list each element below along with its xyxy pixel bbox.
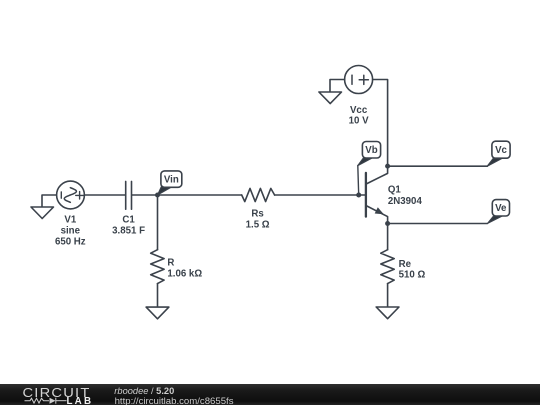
transistor Q1 2N3904 xyxy=(359,166,388,223)
svg-text:sine: sine xyxy=(61,226,81,237)
value label Re 510 Ohm xyxy=(399,259,426,281)
logo resistor-diode glyph xyxy=(25,398,67,404)
value label Rs 1.5 Ohm xyxy=(246,208,270,230)
svg-text:Vb: Vb xyxy=(365,145,377,156)
wire C1 to node Vin xyxy=(132,194,158,196)
svg-text:Vin: Vin xyxy=(164,175,179,186)
svg-text:C1: C1 xyxy=(122,215,135,226)
junction node Vin xyxy=(155,193,160,198)
wire emitter to Ve flag xyxy=(388,223,488,225)
svg-text:3.851 F: 3.851 F xyxy=(112,226,145,237)
resistor R xyxy=(151,250,164,284)
svg-text:1.5 Ω: 1.5 Ω xyxy=(246,219,270,230)
svg-text:Q1: Q1 xyxy=(388,185,402,196)
ground G3 (Vcc) xyxy=(319,92,342,104)
svg-text:Rs: Rs xyxy=(251,208,263,219)
wire node Vin to Rs xyxy=(158,194,242,196)
value label Vcc 10 V xyxy=(349,105,369,127)
emitter arrow xyxy=(375,207,384,214)
svg-text:LAB: LAB xyxy=(67,396,94,405)
svg-text:V1: V1 xyxy=(64,215,76,226)
svg-text:http://circuitlab.com/c8655fs: http://circuitlab.com/c8655fs xyxy=(115,396,234,405)
wire Rs to base node xyxy=(275,194,359,196)
ground G4 (below Re) xyxy=(376,307,399,319)
junction node Ve (emitter) xyxy=(385,221,390,226)
base lead xyxy=(359,194,366,196)
svg-text:rboodee / 5.20: rboodee / 5.20 xyxy=(114,386,174,396)
value label V1 sine 650 Hz xyxy=(55,215,86,248)
resistor Re xyxy=(381,250,394,284)
wire node Vin down to R xyxy=(157,195,159,250)
wire Re to ground xyxy=(387,284,389,307)
junction node Vb (base) xyxy=(356,193,361,198)
voltage source Vcc xyxy=(345,66,373,94)
wire Vcc plus to collector xyxy=(373,80,388,167)
ground G2 (below R) xyxy=(146,307,169,319)
node flag Vc xyxy=(487,141,510,166)
svg-text:Vcc: Vcc xyxy=(350,105,368,116)
voltage source V1 xyxy=(57,181,85,209)
wire R to ground xyxy=(157,284,159,308)
collector lead xyxy=(366,166,388,184)
svg-text:Re: Re xyxy=(399,259,412,270)
wire Vcc minus to ground xyxy=(330,80,345,93)
capacitor C1 xyxy=(126,181,132,209)
node flag Vb xyxy=(358,142,381,196)
base bar xyxy=(365,173,367,217)
wire emitter down to Re xyxy=(387,224,389,250)
node flag Vin xyxy=(158,171,182,195)
emitter lead xyxy=(366,206,388,224)
node flag Ve xyxy=(488,200,510,224)
svg-text:Ve: Ve xyxy=(495,203,507,214)
resistor Rs xyxy=(242,188,275,201)
ground G1 (left of V1) xyxy=(31,195,57,219)
svg-text:650 Hz: 650 Hz xyxy=(55,237,86,248)
junction node Vc (collector) xyxy=(385,164,390,169)
value label R 1.06 kOhm xyxy=(167,258,202,280)
value label Q1 2N3904 xyxy=(388,185,423,208)
svg-text:Vc: Vc xyxy=(495,145,507,156)
svg-text:1.06 kΩ: 1.06 kΩ xyxy=(167,268,202,279)
svg-text:2N3904: 2N3904 xyxy=(388,196,423,207)
wire V1 to C1 xyxy=(84,194,125,196)
wire collector to Vc flag xyxy=(388,165,488,167)
svg-text:510 Ω: 510 Ω xyxy=(399,270,426,281)
value label C1 3.851 F xyxy=(112,215,145,237)
svg-text:10 V: 10 V xyxy=(349,115,369,126)
svg-text:R: R xyxy=(167,258,174,269)
